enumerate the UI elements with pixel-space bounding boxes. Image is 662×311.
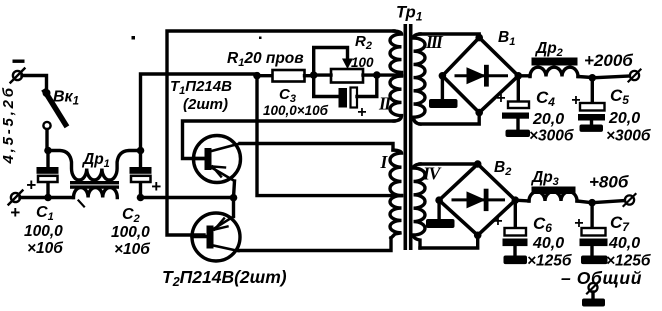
terminal common xyxy=(582,282,605,307)
svg-text:×300б: ×300б xyxy=(529,128,574,145)
potentiometer R2 xyxy=(314,48,377,83)
wire center tap primary xyxy=(257,76,401,196)
winding II (feedback) xyxy=(390,31,402,121)
svg-text:×10б: ×10б xyxy=(27,240,63,257)
svg-text:×300б: ×300б xyxy=(606,128,651,145)
input terminal plus xyxy=(9,191,23,205)
svg-text:100: 100 xyxy=(351,55,374,70)
svg-text:Т2П214В(2шт): Т2П214В(2шт) xyxy=(162,267,287,289)
svg-text:20,0: 20,0 xyxy=(608,110,640,127)
svg-text:20,0: 20,0 xyxy=(532,111,564,128)
svg-text:– Общий: – Общий xyxy=(561,268,642,288)
svg-text:100,0: 100,0 xyxy=(111,224,150,241)
svg-text:+: + xyxy=(496,90,505,107)
bridge B2 xyxy=(435,160,519,239)
svg-text:100,0×10б: 100,0×10б xyxy=(263,103,329,118)
capacitor C7 xyxy=(580,203,608,264)
svg-text:+: + xyxy=(357,104,366,121)
wire winding IV top to B2 xyxy=(420,162,478,165)
svg-text:+: + xyxy=(571,92,580,109)
label C1 values xyxy=(24,204,63,257)
node R1 left xyxy=(253,72,261,80)
wire T1 emitter down xyxy=(234,181,235,198)
wire feed from C2 node to R1 xyxy=(141,74,258,151)
wire to +200 terminal xyxy=(592,76,629,78)
svg-text:40,0: 40,0 xyxy=(532,235,564,252)
node C5 xyxy=(589,74,597,82)
svg-text:+: + xyxy=(493,213,502,230)
node emitters xyxy=(230,194,238,202)
transistor T1 xyxy=(194,136,241,183)
node C2 top xyxy=(137,147,145,155)
svg-text:(2шт): (2шт) xyxy=(183,96,228,113)
ground at B1 left vertex xyxy=(429,76,458,108)
svg-text:×125б: ×125б xyxy=(606,253,651,270)
svg-text:IV: IV xyxy=(422,164,442,184)
svg-text:+200б: +200б xyxy=(584,51,633,70)
winding I (primary) xyxy=(390,150,402,238)
transistor T2 xyxy=(192,213,240,261)
wire T1 base loop xyxy=(183,121,395,159)
resistor R1 xyxy=(257,70,314,82)
choke Dr1 xyxy=(48,151,141,198)
transformer Tr1 core xyxy=(404,24,413,250)
node C1 bottom xyxy=(44,194,52,202)
capacitor C2 xyxy=(130,151,152,199)
wire T2 collector to winding I bottom xyxy=(239,238,392,251)
wire emitter rail xyxy=(141,196,234,199)
svg-text:100,0: 100,0 xyxy=(24,223,63,240)
capacitor C1 xyxy=(37,151,59,199)
node C7 xyxy=(588,199,596,207)
wire T2 emitter up xyxy=(232,198,235,217)
wire to +80 terminal xyxy=(592,201,624,203)
label C5 xyxy=(606,86,651,145)
label C2 values xyxy=(111,206,150,258)
svg-text:+: + xyxy=(151,177,161,196)
svg-text:+80б: +80б xyxy=(589,173,629,192)
wire bottom rail left xyxy=(20,196,73,199)
winding IV xyxy=(414,164,426,248)
bridge B1 xyxy=(439,34,522,117)
wire terminal to switch xyxy=(22,76,47,94)
wire R2 to winding II tap xyxy=(377,73,399,76)
wire winding IV bottom to B2 xyxy=(420,235,478,248)
node C2 bottom xyxy=(137,194,145,202)
winding III xyxy=(414,34,426,124)
choke Dr3 xyxy=(515,187,592,203)
node R2 left xyxy=(310,71,318,79)
wire switch to node xyxy=(45,130,48,152)
label C6 xyxy=(527,214,572,270)
ground at B2 left vertex xyxy=(426,200,455,228)
terminal +80b xyxy=(624,194,636,206)
label C4 xyxy=(529,88,574,145)
wire winding III top to B1 xyxy=(420,34,479,38)
capacitor C4 xyxy=(502,76,530,137)
svg-text:I: I xyxy=(380,152,389,172)
svg-text:+: + xyxy=(10,203,20,222)
svg-text:×10б: ×10б xyxy=(114,241,150,258)
svg-text:40,0: 40,0 xyxy=(608,235,640,252)
capacitor C3 xyxy=(314,75,377,107)
capacitor C5 xyxy=(578,78,605,132)
svg-text:×125б: ×125б xyxy=(527,253,572,270)
capacitor C6 xyxy=(503,200,528,264)
wire B1 to Dr2 xyxy=(518,74,530,77)
switch Vk1 xyxy=(43,89,66,129)
choke Dr2 xyxy=(530,58,592,78)
svg-text:4,5-5,2б: 4,5-5,2б xyxy=(0,85,17,164)
wire T1 collector to winding I top xyxy=(240,144,393,151)
terminal +200b xyxy=(629,70,641,82)
svg-text:+: + xyxy=(574,215,583,232)
node R2 right xyxy=(373,71,381,79)
svg-text:+: + xyxy=(26,176,36,195)
wire winding III bottom to B1 xyxy=(420,113,479,124)
wire T2 base drive loop xyxy=(167,31,394,235)
node switch/C1/Dr1 xyxy=(44,147,52,155)
label C7 xyxy=(606,213,651,270)
input terminal minus xyxy=(11,60,25,83)
